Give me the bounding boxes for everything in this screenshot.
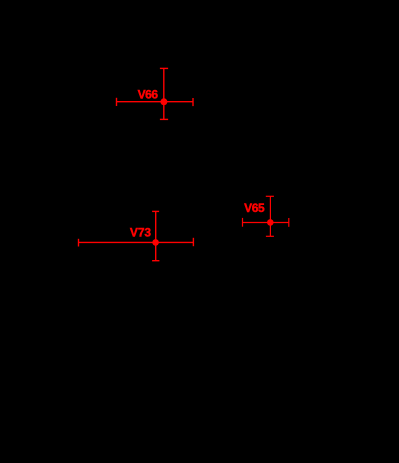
tick top V65 [266, 195, 274, 197]
tick left V73 [78, 239, 80, 247]
probe marker V65 [243, 196, 289, 236]
tick right V65 [288, 218, 290, 227]
probe marker V73 [79, 211, 194, 260]
wire vertical V65 [269, 196, 271, 236]
tick top V66 [160, 67, 168, 69]
node dot V73 [152, 239, 159, 246]
tick bottom V66 [160, 118, 168, 120]
wire horizontal V73 [79, 241, 194, 243]
wire vertical V66 [163, 68, 165, 119]
wire vertical V73 [155, 211, 157, 260]
tick left V65 [242, 218, 244, 227]
node dot V65 [267, 219, 274, 226]
tick bottom V73 [152, 260, 159, 262]
node dot V66 [160, 98, 167, 105]
tick right V73 [192, 238, 194, 246]
tick right V66 [192, 98, 194, 106]
svg-text:V65: V65 [244, 201, 265, 215]
svg-text:V66: V66 [138, 87, 159, 101]
probe marker V66 [117, 68, 194, 119]
tick left V66 [116, 98, 118, 106]
svg-text:V73: V73 [130, 225, 152, 239]
wire horizontal V66 [117, 101, 194, 103]
tick bottom V65 [266, 235, 274, 237]
tick top V73 [152, 210, 159, 212]
wire horizontal V65 [243, 222, 289, 224]
